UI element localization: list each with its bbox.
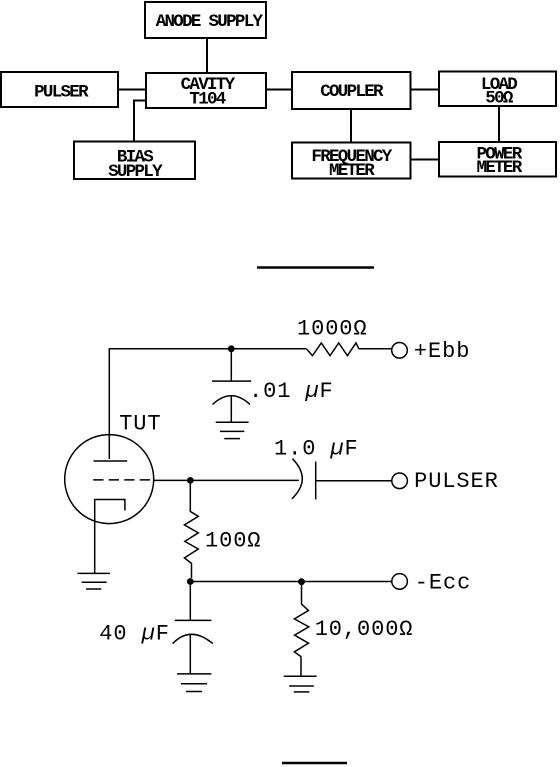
svg-text:METER: METER [476, 158, 522, 178]
svg-text:ANODE SUPPLY: ANODE SUPPLY [156, 12, 264, 32]
svg-text:.01 µF: .01 µF [249, 379, 334, 404]
svg-text:TUT: TUT [119, 412, 161, 437]
svg-text:-Ecc: -Ecc [415, 571, 471, 596]
svg-text:1000Ω: 1000Ω [297, 316, 368, 341]
svg-text:PULSER: PULSER [414, 469, 499, 494]
svg-text:COUPLER: COUPLER [320, 82, 384, 102]
svg-text:+Ebb: +Ebb [414, 339, 470, 364]
svg-text:10,000Ω: 10,000Ω [315, 617, 414, 642]
svg-text:100Ω: 100Ω [205, 528, 261, 553]
svg-text:METER: METER [329, 161, 375, 181]
svg-text:SUPPLY: SUPPLY [108, 162, 163, 182]
svg-text:T104: T104 [189, 90, 225, 110]
svg-text:40 µF: 40 µF [99, 621, 170, 646]
svg-text:50Ω: 50Ω [485, 89, 514, 109]
svg-text:PULSER: PULSER [34, 82, 89, 102]
svg-text:1.0 µF: 1.0 µF [274, 436, 359, 461]
